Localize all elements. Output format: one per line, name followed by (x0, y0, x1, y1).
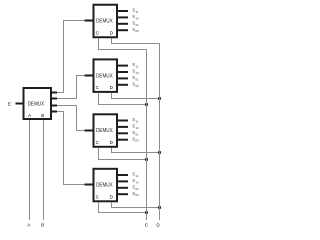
svg-text:01: 01 (135, 77, 139, 81)
output stub U5 S11 (118, 174, 128, 176)
wire U1.O3 to U5 input (57, 112, 85, 185)
svg-text:B: B (41, 222, 44, 227)
svg-text:10: 10 (135, 180, 139, 184)
output stub U2 S00 (118, 29, 128, 31)
output stub U3 S11 (118, 65, 128, 67)
svg-text:01: 01 (135, 132, 139, 136)
output stub U3 S10 (118, 71, 128, 73)
svg-text:11: 11 (135, 65, 138, 69)
svg-text:00: 00 (135, 139, 139, 143)
svg-text:A: A (27, 222, 30, 227)
svg-text:00: 00 (135, 29, 139, 33)
wire U5 pin C to C bus (99, 202, 147, 212)
input stub U4 (85, 130, 93, 132)
wire U1.O2 to U4 input (57, 106, 85, 131)
junction U5-D (158, 206, 161, 209)
wire U1.O1 to U3 input (57, 76, 85, 99)
svg-text:10: 10 (135, 16, 139, 20)
output stub U1 O3 (52, 111, 57, 113)
wire U2 pin D to D bus (112, 38, 160, 44)
demux U5 (bottom) (94, 169, 118, 202)
junction U4-D (158, 151, 161, 154)
svg-text:E: E (8, 101, 11, 106)
output stub U3 S00 (118, 84, 128, 86)
output stub U5 S10 (118, 180, 128, 182)
junction U4-C (145, 158, 148, 161)
demux U4 (third) (94, 114, 118, 147)
svg-text:10: 10 (135, 71, 139, 75)
svg-text:00: 00 (135, 193, 139, 197)
demux U1 (first stage, left) (24, 88, 52, 119)
output stub U1 O2 (52, 105, 57, 107)
wire D bus (159, 44, 161, 221)
svg-text:A: A (28, 113, 31, 118)
output stub U5 S00 (118, 193, 128, 195)
svg-text:11: 11 (135, 174, 138, 178)
svg-text:DEMUX: DEMUX (96, 128, 113, 134)
output stub U4 S11 (118, 120, 128, 122)
pin stub E input (U1) (16, 103, 23, 105)
output stub U1 O0 (52, 92, 57, 94)
wire U1.O0 to U2 input (57, 21, 85, 93)
output stub U4 S01 (118, 132, 128, 134)
junction U3-D (158, 97, 161, 100)
svg-text:00: 00 (135, 84, 139, 88)
svg-text:11: 11 (135, 10, 138, 14)
output stub U2 S01 (118, 23, 128, 25)
wire U4 pin C to C bus (99, 148, 147, 160)
wire select A (29, 120, 31, 220)
input stub U2 (85, 20, 93, 22)
input stub U5 (85, 184, 93, 186)
svg-text:11: 11 (135, 120, 138, 124)
svg-text:01: 01 (135, 187, 139, 191)
output stub U3 S01 (118, 77, 128, 79)
wire U4 pin D to D bus (112, 148, 160, 153)
svg-text:B: B (41, 113, 44, 118)
input stub U3 (85, 75, 93, 77)
output stub U4 S10 (118, 126, 128, 128)
output stub U1 O1 (52, 98, 57, 100)
wire C bus (146, 50, 148, 221)
svg-text:01: 01 (135, 23, 139, 27)
junction U5-C (145, 211, 148, 214)
junction U3-C (145, 103, 148, 106)
output stub U2 S11 (118, 10, 128, 12)
output stub U5 S01 (118, 187, 128, 189)
demux U3 (second) (94, 59, 118, 92)
svg-text:DEMUX: DEMUX (96, 19, 113, 25)
wire U3 pin C to C bus (99, 93, 147, 105)
wire U2 pin C to C bus (99, 38, 147, 50)
wire U3 pin D to D bus (112, 93, 160, 99)
demux U2 (top) (94, 5, 118, 38)
svg-text:10: 10 (135, 126, 139, 130)
svg-text:DEMUX: DEMUX (96, 183, 113, 189)
wire select B (43, 120, 45, 220)
svg-text:DEMUX: DEMUX (96, 73, 113, 79)
svg-text:DEMUX: DEMUX (28, 101, 45, 107)
output stub U4 S00 (118, 139, 128, 141)
wire U5 pin D to D bus (112, 202, 160, 207)
output stub U2 S10 (118, 16, 128, 18)
